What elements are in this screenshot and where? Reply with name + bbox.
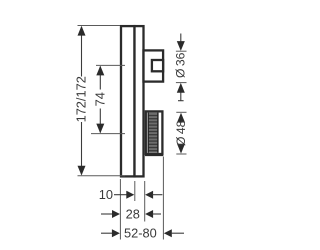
dimension Ø48 arrows (inside pointing out) [177,113,185,123]
dimension Ø36 line tails [178,34,184,101]
top connection port (Ø36 box) [144,50,164,81]
svg-text:10: 10 [99,187,113,202]
extension tick: handle bottom (Ø48) [176,153,186,155]
svg-text:172/172: 172/172 [74,76,89,122]
dimension Ø36 arrows (outside pointing in) [177,41,185,51]
dimension 172/172 arrows [78,26,86,36]
extension tick: handle top (Ø48) [176,111,186,113]
dimension 172/172 line [81,27,83,175]
extension line: port centerline (74 top) [96,64,125,66]
dimension 74 arrows [96,66,104,76]
extension tick: port bottom (Ø36) [176,82,187,84]
extension line: handle face below (52-80 right) [162,157,164,240]
port inner detail square [152,60,163,71]
svg-text:52-80: 52-80 [124,226,157,241]
dimension 28 leader and arrows [101,213,114,215]
svg-text:Ø 48: Ø 48 [174,120,188,146]
extension line: plate bottom (172/172) [78,175,126,177]
svg-text:28: 28 [126,206,140,221]
dimension 74 line [99,67,101,133]
valve body sleeve (rear rectangle) [135,26,144,176]
dimension 52-80 leader and arrows [101,232,113,234]
extension line: plate top (172/172) [78,25,121,27]
svg-text:74: 74 [92,92,107,106]
escutcheon plate (side view, front rectangle) [121,26,135,176]
extension line: handle base below (10/28 right) [144,181,146,222]
svg-text:Ø 36: Ø 36 [174,52,188,78]
extension line: plate front below (bottom dims left) [119,179,121,240]
handle outline (Ø48) [146,111,163,154]
extension line: handle centerline (74 bottom) [91,133,125,135]
handle bottom edge emphasis [145,155,163,157]
extension tick: port top (Ø36) [176,50,187,52]
dimension 10 leader and arrows [114,194,128,196]
extension line: sleeve front below (10 left) [134,181,136,201]
handle knurled grip [148,113,159,153]
